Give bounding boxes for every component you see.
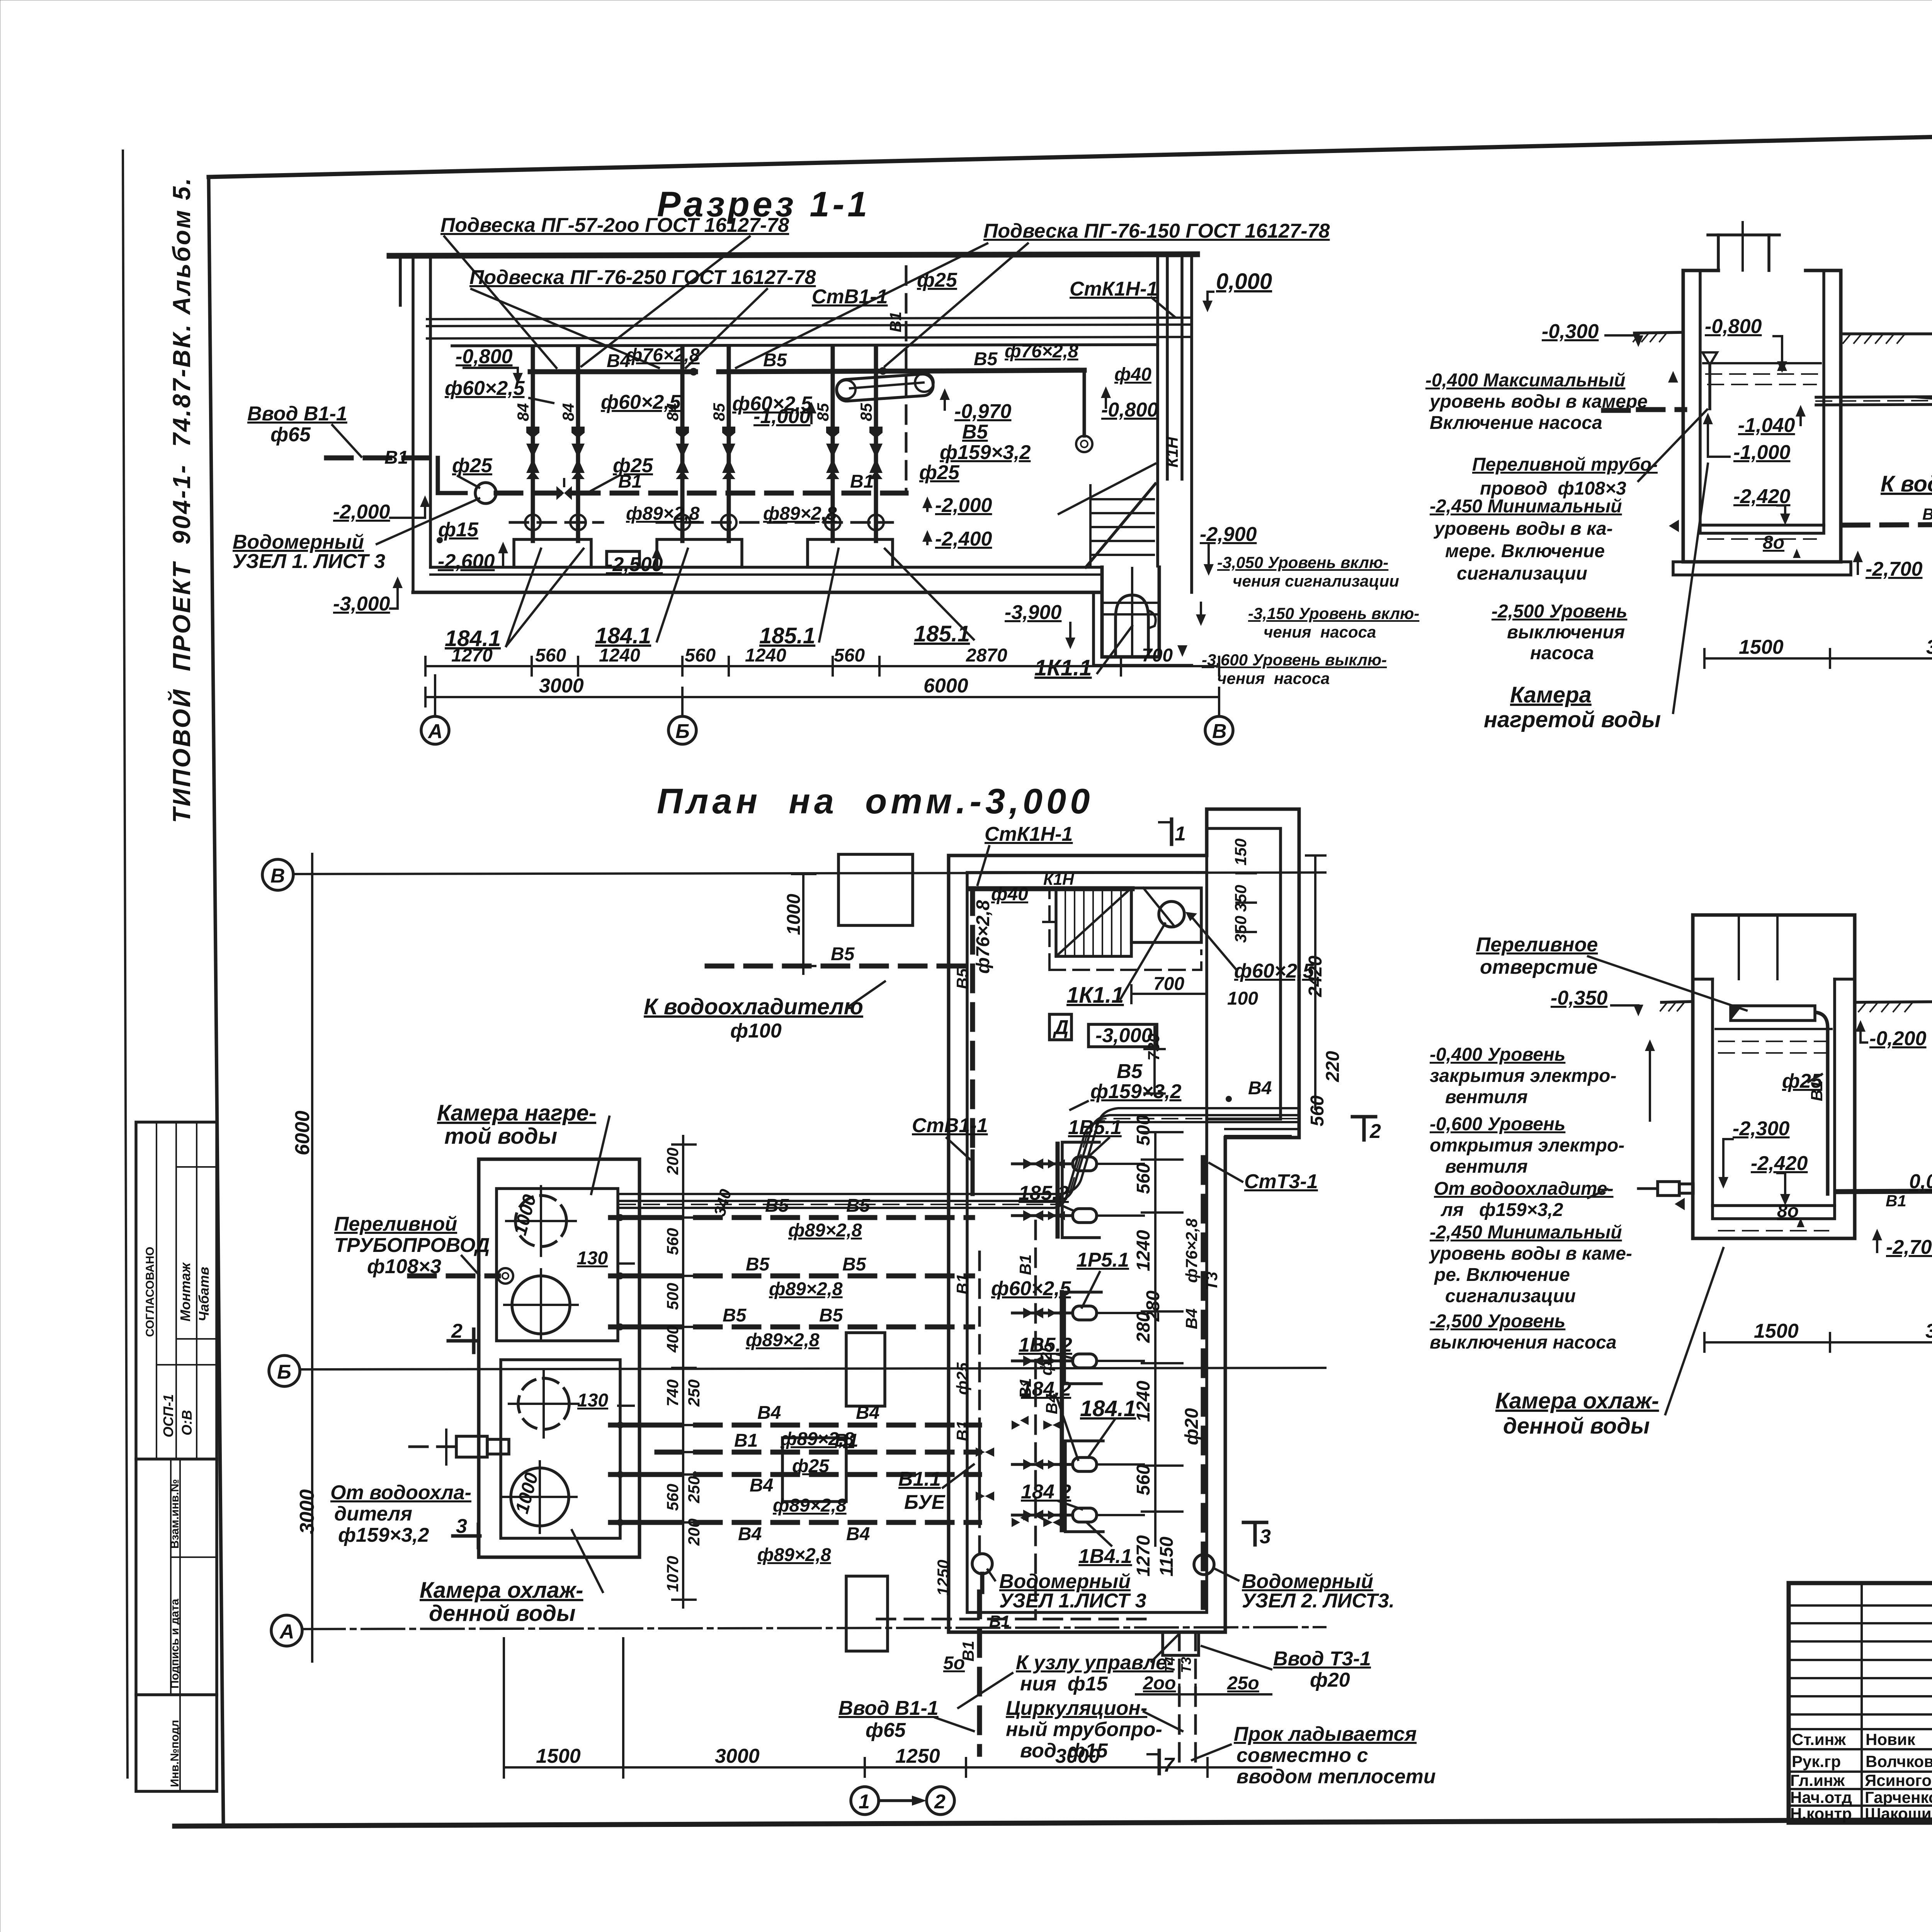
svg-text:2: 2	[934, 1791, 946, 1813]
svg-text:560: 560	[1133, 1163, 1154, 1194]
svg-text:2оо: 2оо	[1143, 1673, 1176, 1694]
pipe B1 horizontal dashed	[496, 491, 906, 496]
svg-text:ф60×2,5: ф60×2,5	[732, 393, 813, 415]
svg-text:500: 500	[663, 1283, 682, 1310]
svg-text:150: 150	[1231, 838, 1250, 866]
svg-text:3000: 3000	[715, 1745, 760, 1767]
label phi25 second	[591, 454, 653, 491]
vodomerny uzel 1 circle plan	[972, 1554, 992, 1592]
svg-text:350: 350	[1231, 885, 1250, 912]
label B1 mid	[618, 471, 642, 492]
chamber stub pipes upper plan	[611, 1214, 657, 1330]
svg-text:25о: 25о	[1227, 1673, 1259, 1694]
left chamber upper inner	[497, 1189, 618, 1341]
pipe B5 exit top plan	[707, 944, 973, 966]
svg-text:К водоохладителю: К водоохладителю	[644, 994, 863, 1019]
chamber base slab r2	[1673, 562, 1851, 575]
pump circle low2 plan	[503, 1461, 577, 1533]
wall right of section 1-1	[1158, 254, 1192, 592]
overflow box r3	[1731, 1006, 1815, 1020]
svg-text:Д: Д	[1053, 1016, 1069, 1039]
label StK1N-1 r1	[1070, 278, 1175, 317]
label phi60x2.5 mid	[601, 391, 681, 413]
label phi60x2.5 plan2	[991, 1277, 1071, 1300]
svg-text:уровень воды в ка-: уровень воды в ка-	[1434, 519, 1613, 539]
pump circle up2 plan	[504, 1269, 578, 1341]
svg-text:А: А	[427, 720, 443, 743]
label ot vodoohladitelya r3	[1434, 1179, 1614, 1220]
dim 560 rotated plan2	[1307, 1095, 1328, 1126]
svg-text:сигнализации: сигнализации	[1457, 563, 1587, 584]
dim 1000 rotated top	[784, 874, 815, 974]
svg-text:5о: 5о	[943, 1653, 965, 1673]
svg-text:ТРУБОПРОВОД: ТРУБОПРОВОД	[334, 1234, 490, 1257]
svg-text:вводом теплосети: вводом теплосети	[1236, 1765, 1436, 1788]
axis A line	[302, 1627, 1325, 1629]
label phi89x2.8 a	[626, 503, 700, 524]
svg-text:1250: 1250	[895, 1745, 940, 1767]
svg-text:Прок ладывается: Прок ладывается	[1234, 1723, 1417, 1745]
pipe B1 horiz bottom plan	[877, 1618, 1155, 1621]
label B5 phi159	[940, 421, 1031, 464]
label B4 on header	[607, 351, 630, 371]
rotated labels phi76 B5 plan	[953, 900, 993, 989]
svg-text:ТИПОВОЙ ПРОЕКТ 904-1- 74.87: ТИПОВОЙ ПРОЕКТ 904-1- 74.87-ВК. Альбом 5…	[167, 177, 196, 823]
svg-text:Б: Б	[675, 720, 690, 743]
label KiN rotated	[1163, 436, 1181, 468]
label hanger PG-57-200	[440, 214, 789, 236]
svg-text:Т3: Т3	[1202, 1272, 1221, 1291]
svg-text:В1: В1	[850, 471, 874, 492]
level -1.040 r2	[1738, 405, 1806, 437]
pipe B4 dashed row3 plan	[657, 1522, 980, 1544]
svg-text:ф25: ф25	[919, 461, 960, 484]
level -3.150 text	[1196, 603, 1419, 641]
svg-text:-1,000: -1,000	[1733, 441, 1791, 464]
label phi25 top	[917, 269, 957, 291]
pump group frame 3	[1065, 1441, 1103, 1532]
svg-text:Нач.отд: Нач.отд	[1790, 1788, 1852, 1806]
svg-text:ф76×2,8: ф76×2,8	[626, 345, 700, 366]
svg-text:ф89×2,8: ф89×2,8	[788, 1220, 862, 1241]
riser tags rotated	[514, 403, 875, 421]
stamp signature texts	[1790, 1730, 1932, 1824]
pump group frame 2	[1065, 1292, 1101, 1384]
svg-text:денной воды: денной воды	[1503, 1413, 1650, 1439]
dim row1 texts	[451, 645, 1173, 666]
pump row 3 plan	[1012, 1306, 1144, 1320]
column footing B2	[782, 1438, 846, 1502]
svg-text:350: 350	[1231, 916, 1250, 943]
svg-text:О:В: О:В	[179, 1410, 195, 1435]
svg-text:-2,420: -2,420	[1751, 1152, 1808, 1175]
pipe B4 dashed row1 plan	[657, 1403, 980, 1425]
svg-text:ф25: ф25	[613, 454, 653, 477]
label phi25 plan	[792, 1456, 830, 1476]
svg-text:-2,450 Минимальный: -2,450 Минимальный	[1430, 1222, 1622, 1243]
label Kamera nagretoy plan	[437, 1100, 609, 1194]
svg-text:-2,400: -2,400	[935, 528, 992, 550]
svg-text:ф76×2,8: ф76×2,8	[973, 900, 993, 974]
paper edge left line	[123, 151, 128, 1777]
svg-text:1500: 1500	[1754, 1320, 1799, 1342]
chamber cold r3 top band	[1693, 915, 1855, 979]
svg-text:Подвеска ПГ-76-250 ГОСТ 16127-: Подвеска ПГ-76-250 ГОСТ 16127-78	[469, 266, 816, 289]
svg-text:В5: В5	[974, 349, 998, 369]
svg-text:-0,300: -0,300	[1542, 320, 1599, 343]
svg-text:1240: 1240	[1133, 1381, 1154, 1422]
pipe B5 dashed row3 plan	[657, 1305, 973, 1327]
level -3.000 left	[333, 577, 403, 615]
svg-text:В1: В1	[1886, 1192, 1906, 1210]
valve cluster row plan mid2	[1012, 1513, 1062, 1527]
svg-text:1270: 1270	[451, 645, 493, 666]
svg-text:В1: В1	[886, 311, 905, 332]
label 1000 rotated lower plan	[512, 1471, 542, 1516]
level -2.700 r3	[1872, 1229, 1932, 1259]
svg-text:1240: 1240	[745, 645, 786, 666]
svg-text:СтТ3-1: СтТ3-1	[1244, 1170, 1318, 1193]
leader 184.2b plan	[1021, 1481, 1082, 1509]
svg-text:1: 1	[859, 1791, 870, 1813]
svg-text:В1: В1	[953, 1420, 971, 1441]
bottom dim line plan	[504, 1745, 1271, 1777]
svg-text:Б: Б	[277, 1361, 291, 1383]
svg-text:ф159×3,2: ф159×3,2	[940, 441, 1031, 464]
svg-text:В4: В4	[757, 1403, 781, 1423]
svg-text:280: 280	[1133, 1312, 1154, 1343]
svg-text:1500: 1500	[1739, 636, 1784, 658]
level -3.600 text	[1177, 645, 1387, 687]
svg-text:ф20: ф20	[1310, 1669, 1350, 1691]
section mark 1 top	[1159, 819, 1186, 845]
building plan inner wall	[967, 828, 1281, 1612]
svg-text:СтК1Н-1: СтК1Н-1	[985, 823, 1073, 845]
label phi25 right	[919, 461, 960, 484]
pipe phi89 dashed level	[510, 521, 893, 524]
svg-text:1500: 1500	[536, 1745, 581, 1767]
dim 3000 rotated	[296, 1489, 318, 1534]
svg-text:чения насоса: чения насоса	[1264, 623, 1376, 641]
B1.1 BUE valves plan	[976, 1252, 994, 1554]
axis B line	[300, 1368, 1325, 1369]
dim 100 plan	[1227, 988, 1258, 1009]
svg-text:В5: В5	[763, 350, 787, 371]
valve cluster row plan mid	[1012, 1416, 1062, 1430]
svg-text:В1: В1	[384, 447, 408, 468]
valve on B1	[556, 479, 572, 500]
dim line r2	[1704, 636, 1932, 668]
leader 1V5.2 plan	[1019, 1334, 1073, 1359]
left chamber lower inner	[501, 1360, 620, 1538]
svg-text:Чабатв: Чабатв	[196, 1267, 212, 1321]
label phi40	[1114, 364, 1151, 385]
pipe B1 dashed mid plan	[657, 1430, 980, 1452]
svg-text:В4: В4	[1248, 1078, 1272, 1099]
pipe B4 dashed row2 plan	[657, 1475, 980, 1496]
sidebar rotated captions	[144, 1247, 212, 1787]
label phi25 first	[452, 454, 493, 488]
svg-text:740: 740	[663, 1379, 682, 1406]
svg-text:План на отм.-3,000: План на отм.-3,000	[657, 782, 1094, 821]
section mark T bottom plan	[1148, 1750, 1175, 1776]
pipe B1 vertical mid plan	[1016, 1221, 1055, 1619]
main stamp outline	[1789, 1583, 1932, 1823]
svg-text:1000: 1000	[512, 1471, 542, 1516]
svg-text:Гл.инж: Гл.инж	[1790, 1771, 1845, 1789]
svg-text:185.1: 185.1	[914, 621, 970, 646]
svg-text:1250: 1250	[934, 1560, 952, 1596]
leader 185.1 right	[885, 549, 974, 646]
axis circle V1	[1205, 706, 1233, 744]
svg-text:ф25: ф25	[452, 454, 493, 477]
label phi15	[437, 519, 479, 543]
svg-text:3: 3	[1260, 1526, 1271, 1548]
svg-text:-0,970: -0,970	[954, 400, 1012, 423]
svg-text:В5: В5	[723, 1305, 747, 1326]
svg-text:340: 340	[710, 1187, 735, 1218]
svg-text:1000: 1000	[784, 894, 804, 935]
stairs section 1-1	[1059, 464, 1155, 567]
pump pedestal 2	[657, 539, 742, 567]
pump pedestal small	[607, 551, 639, 567]
pump group frame 1	[1058, 1142, 1099, 1238]
dim 200 250 plan	[1136, 1673, 1271, 1704]
svg-text:Камера: Камера	[1510, 682, 1592, 707]
svg-text:-0,600 Уровень: -0,600 Уровень	[1430, 1114, 1565, 1134]
pipe B5 lower dashed r2	[1843, 524, 1932, 525]
svg-text:1Р5.1: 1Р5.1	[1077, 1249, 1129, 1271]
riser base flanges	[525, 515, 884, 530]
label StV1-1 plan	[912, 1114, 988, 1159]
level -3.900	[1005, 601, 1075, 649]
svg-text:-1,040: -1,040	[1738, 414, 1795, 437]
axis V circle	[262, 859, 293, 890]
dim 350 350 rotated plan	[1231, 873, 1256, 943]
label 85 lower left r2	[1922, 504, 1932, 523]
column footing A	[846, 1576, 888, 1651]
leader hanger PG-57-200	[444, 236, 750, 368]
label Vvod V1-1	[247, 403, 361, 457]
leader 1P5.1 plan	[1077, 1249, 1129, 1308]
flag B5 159 plan	[1070, 1060, 1182, 1110]
dim 2420 rotated plan	[1305, 855, 1326, 1109]
svg-text:-0,200: -0,200	[1869, 1027, 1927, 1050]
svg-text:В5: В5	[846, 1196, 871, 1216]
svg-text:К1Н: К1Н	[1043, 870, 1075, 888]
ground hatch left r3	[1660, 1002, 1693, 1011]
label 84 on bundle plan	[1226, 1078, 1272, 1102]
svg-text:130: 130	[577, 1248, 608, 1269]
level -0.300 r2	[1542, 320, 1643, 347]
axis circle A	[421, 675, 449, 744]
label 80 r3	[1777, 1201, 1804, 1227]
svg-text:0,000: 0,000	[1216, 269, 1272, 294]
svg-text:85: 85	[857, 403, 875, 421]
level -2.900 r1	[1200, 523, 1257, 576]
standpipe K1N with circle end	[1076, 370, 1092, 452]
svg-text:Шакошина: Шакошина	[1865, 1804, 1932, 1823]
svg-text:2870: 2870	[966, 645, 1007, 666]
plan axis circles 1-2 bottom	[851, 1787, 954, 1815]
entry pipe Vvod V1-1	[327, 458, 466, 493]
svg-text:В5: В5	[746, 1254, 770, 1275]
pump pedestal 1	[514, 539, 591, 567]
svg-text:Гарченко: Гарченко	[1865, 1788, 1932, 1806]
left labels block r3	[1430, 1044, 1616, 1107]
label phi60x2.5 mid2	[732, 393, 813, 415]
stamp signature grid	[1789, 1583, 1932, 1823]
dim 150 rotated plan	[1231, 838, 1250, 866]
svg-text:3000: 3000	[1926, 636, 1932, 658]
svg-text:В5: В5	[819, 1305, 844, 1326]
ladder dashed box plan	[1049, 888, 1201, 970]
svg-text:В: В	[270, 865, 285, 887]
svg-text:ф60×2,5: ф60×2,5	[445, 377, 525, 400]
svg-text:ф40: ф40	[991, 884, 1028, 905]
pipes T4 T3 bottom plan	[1162, 1632, 1199, 1762]
label K vodoohladitelyu r2	[1881, 460, 1932, 511]
marker D box plan	[1049, 1014, 1071, 1040]
vert dims pumps plan	[1133, 1115, 1182, 1577]
svg-text:вентиля: вентиля	[1445, 1156, 1528, 1177]
sheet frame bottom	[175, 1818, 1932, 1826]
chamber stub pipes lower plan	[611, 1422, 657, 1526]
svg-text:130: 130	[577, 1390, 608, 1411]
svg-text:В4: В4	[750, 1475, 773, 1496]
sidebar attribute column	[136, 1122, 217, 1791]
pump circle up1 plan	[506, 1186, 576, 1256]
svg-text:1070: 1070	[663, 1556, 682, 1592]
label phi89x2.8 b	[763, 503, 837, 524]
svg-text:560: 560	[685, 645, 716, 666]
label perelivnoe otverstie r3	[1476, 934, 1747, 1010]
pipe B5 dashed row1 plan	[657, 1196, 973, 1218]
svg-text:В: В	[1212, 720, 1227, 743]
svg-text:700: 700	[1153, 974, 1184, 994]
svg-text:-2,600: -2,600	[438, 550, 495, 573]
svg-text:ф76×2,8: ф76×2,8	[1005, 341, 1078, 362]
svg-text:-2,000: -2,000	[935, 494, 992, 517]
level 0.000 r1	[1202, 269, 1272, 312]
svg-text:6000: 6000	[291, 1111, 314, 1155]
label B5 right	[974, 349, 998, 369]
entry pipe flanged r3	[1638, 1182, 1693, 1196]
svg-text:В1: В1	[1016, 1378, 1034, 1399]
level -2.300 r3	[1718, 1117, 1790, 1189]
svg-text:84: 84	[559, 403, 577, 421]
vertical B1 dashed top	[886, 267, 906, 491]
svg-text:560: 560	[1133, 1464, 1154, 1495]
label -2.450 block r3	[1429, 1198, 1685, 1306]
svg-text:3000: 3000	[1925, 1320, 1932, 1342]
svg-text:чения насоса: чения насоса	[1217, 669, 1330, 687]
svg-text:ф89×2,8: ф89×2,8	[773, 1495, 847, 1516]
svg-text:1К1.1: 1К1.1	[1066, 983, 1124, 1008]
svg-text:Монтаж: Монтаж	[177, 1262, 193, 1321]
svg-text:-2,700: -2,700	[1886, 1236, 1932, 1259]
svg-text:7: 7	[1163, 1754, 1175, 1776]
svg-text:ный трубопро-: ный трубопро-	[1006, 1718, 1162, 1741]
flag B5 159 r2	[1917, 359, 1932, 401]
svg-text:совместно с: совместно с	[1236, 1744, 1368, 1767]
label K uzlu upravleniya plan	[958, 1634, 1179, 1708]
pit right section 1-1	[1094, 567, 1192, 665]
dim line r3	[1704, 1319, 1932, 1352]
label phi76x2.8 right	[1005, 341, 1078, 362]
label ot vodoohla plan	[330, 1481, 471, 1546]
pipe B5 dashed row2 plan	[657, 1254, 973, 1276]
svg-text:В1.1: В1.1	[898, 1468, 941, 1490]
svg-text:ф25: ф25	[1037, 1343, 1055, 1376]
level -2.000 right	[922, 494, 992, 517]
svg-text:8о: 8о	[1763, 532, 1784, 553]
leader 185.1 plan	[1068, 1116, 1122, 1158]
svg-text:вентиля: вентиля	[1445, 1087, 1528, 1107]
pump row 4 plan	[1012, 1354, 1144, 1368]
leader 185.2 plan	[1019, 1182, 1074, 1211]
svg-text:3000: 3000	[1055, 1745, 1100, 1767]
svg-text:-3,000: -3,000	[1095, 1024, 1153, 1047]
svg-text:В5: В5	[765, 1196, 789, 1216]
svg-text:ф65: ф65	[866, 1719, 906, 1742]
section mark 3 left	[453, 1515, 480, 1548]
label K vodoohladitelyu plan	[644, 981, 885, 1042]
leader 184.1 first	[445, 549, 583, 651]
label B1 at entry	[384, 447, 408, 468]
svg-text:ф89×2,8: ф89×2,8	[626, 503, 700, 524]
label V1.1 BUE plan	[898, 1464, 974, 1514]
svg-text:ф89×2,8: ф89×2,8	[757, 1545, 831, 1565]
label B1 right	[850, 471, 874, 492]
svg-text:185.1: 185.1	[759, 623, 815, 648]
svg-text:той воды: той воды	[444, 1124, 557, 1149]
label hanger PG-76-150	[983, 220, 1330, 242]
dim 130 upper plan	[577, 1248, 634, 1269]
svg-text:В1: В1	[734, 1430, 758, 1451]
svg-text:85: 85	[710, 403, 728, 421]
svg-text:Переливной: Переливной	[334, 1213, 457, 1235]
pump 1K1.1 in pit	[1116, 568, 1156, 657]
svg-text:3000: 3000	[296, 1489, 318, 1534]
vert dim 1250 plan left	[934, 1274, 971, 1596]
dim 50 plan	[943, 1653, 965, 1673]
level -2.400	[922, 528, 992, 550]
svg-text:ф76×2,8: ф76×2,8	[1182, 1218, 1201, 1283]
svg-text:От водоохла-: От водоохла-	[330, 1481, 471, 1504]
svg-text:1150: 1150	[1156, 1536, 1177, 1577]
svg-text:К1Н: К1Н	[1163, 436, 1181, 468]
svg-text:выключения: выключения	[1507, 622, 1625, 643]
svg-text:100: 100	[1227, 988, 1258, 1009]
pipe B5 vertical along left wall plan	[970, 889, 975, 1194]
vodomerny uzel 2 circle plan	[1194, 1554, 1214, 1575]
svg-text:выключения насоса: выключения насоса	[1430, 1332, 1617, 1353]
label Kamera nagretoy r2	[1484, 464, 1708, 732]
pipe K1N plan	[970, 870, 1132, 889]
level -2.600	[438, 542, 508, 573]
svg-text:Ввод В1-1: Ввод В1-1	[838, 1697, 939, 1719]
label cirkulyacionny plan	[1006, 1697, 1182, 1762]
section mark 2 left	[448, 1320, 475, 1352]
svg-text:В5: В5	[831, 944, 855, 964]
svg-text:ф159×3,2: ф159×3,2	[338, 1524, 429, 1546]
overflow pipe plan	[410, 1268, 513, 1284]
svg-text:Камера охлаж-: Камера охлаж-	[1495, 1388, 1659, 1413]
svg-text:500: 500	[1133, 1115, 1154, 1146]
label phi89 row1 plan	[788, 1220, 862, 1241]
level -2.420 r3	[1751, 1152, 1808, 1206]
